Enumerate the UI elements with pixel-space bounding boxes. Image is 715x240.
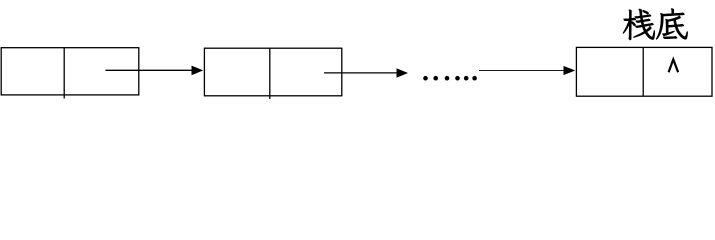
label 栈底 (stack bottom) char 栈: [623, 9, 655, 40]
wire arrow from N2 pointer toward ellipsis: [324, 72, 398, 74]
node box N3 (stack bottom): [576, 47, 712, 96]
node N1 cell divider: [63, 48, 65, 99]
node N3 cell divider: [642, 47, 644, 96]
wire arrow from ellipsis to bottom node: [479, 70, 565, 72]
ellipsis dots: [423, 76, 428, 81]
node N2 cell divider: [269, 48, 271, 99]
null pointer caret in N3: [669, 59, 679, 72]
node box N2: [204, 48, 341, 96]
label 栈底 char 底: [656, 8, 688, 39]
node box N1: [1, 48, 139, 95]
wire arrow from N1 pointer to N2: [106, 69, 193, 71]
